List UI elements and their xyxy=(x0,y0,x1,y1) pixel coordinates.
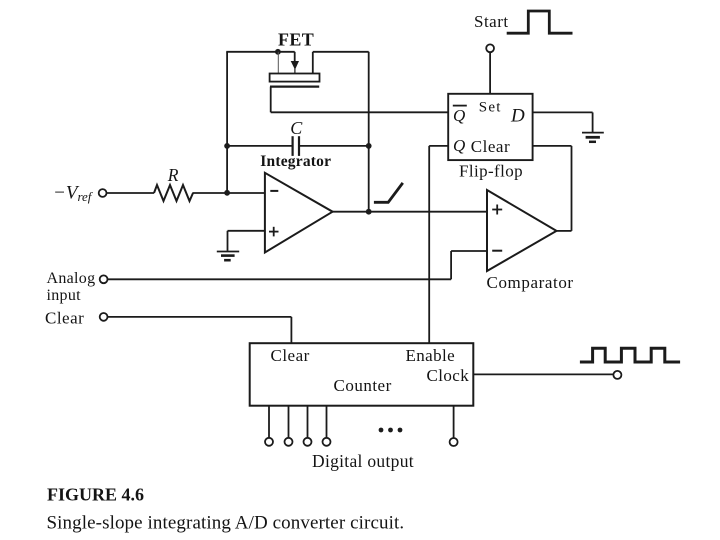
terminal start xyxy=(486,44,494,52)
wire analog riser xyxy=(450,251,452,279)
wire integrator output xyxy=(333,211,487,213)
terminal clear xyxy=(100,313,108,321)
svg-text:Clear: Clear xyxy=(271,346,310,365)
wire gate to flip-flop Qbar xyxy=(271,111,449,113)
svg-text:−Vref: −Vref xyxy=(53,182,94,204)
label Qbar xyxy=(453,106,465,125)
wire D output xyxy=(533,111,593,113)
wire integrator output vertical xyxy=(368,52,370,212)
digital output stub 4 xyxy=(326,406,328,438)
wire Vref to resistor xyxy=(107,192,154,194)
label Analog input xyxy=(47,270,96,304)
wire clear drop xyxy=(290,317,292,343)
svg-text:R: R xyxy=(167,165,179,185)
svg-text:C: C xyxy=(290,118,303,138)
digital output terminal 5 xyxy=(450,438,458,446)
ellipsis dots xyxy=(379,428,403,433)
node capacitor left junction xyxy=(224,143,230,149)
svg-text:Integrator: Integrator xyxy=(260,153,331,170)
wire start to set xyxy=(489,52,491,93)
transistor FET arrow xyxy=(291,52,299,74)
op-amp U2 plus sign xyxy=(492,205,502,215)
transistor FET channel bar xyxy=(270,85,319,87)
svg-text:Clear: Clear xyxy=(45,309,84,328)
wire FET gate down xyxy=(270,87,272,113)
digital output stub 3 xyxy=(307,406,309,438)
svg-text:Clock: Clock xyxy=(427,366,470,385)
op-amp U2 minus sign xyxy=(492,250,502,252)
counter box xyxy=(250,343,474,406)
node A (inverting input junction) xyxy=(224,190,230,196)
resistor R xyxy=(154,185,193,201)
svg-text:Analog: Analog xyxy=(47,270,96,287)
op-amp U1 minus sign xyxy=(270,190,278,192)
svg-text:FET: FET xyxy=(278,30,314,50)
svg-text:Q: Q xyxy=(453,136,465,155)
clock waveform xyxy=(580,348,680,362)
wire capacitor right xyxy=(299,145,368,147)
wire D ground drop xyxy=(592,112,594,132)
wire Q to enable vertical xyxy=(428,146,430,343)
svg-text:Set: Set xyxy=(479,99,502,115)
ground integrator xyxy=(217,252,239,261)
digital output stub 2 xyxy=(288,406,290,438)
flip-flop U3 box xyxy=(448,94,532,160)
wire top feedback left segment xyxy=(226,51,294,53)
wire thin gate stub xyxy=(277,52,279,74)
wire capacitor left xyxy=(227,145,292,147)
wire clear input xyxy=(108,316,292,318)
svg-text:Comparator: Comparator xyxy=(487,273,574,292)
digital output terminal 3 xyxy=(304,438,312,446)
wire Q output left xyxy=(429,145,448,147)
node gate junction dot xyxy=(275,49,281,55)
digital output stub 5 xyxy=(453,406,455,438)
transistor FET plate xyxy=(270,74,320,82)
wire comparator output xyxy=(557,230,572,232)
digital output terminal 4 xyxy=(323,438,331,446)
wire drain drop xyxy=(312,52,314,74)
wire clock xyxy=(473,373,613,375)
digital output terminal 1 xyxy=(265,438,273,446)
capacitor C xyxy=(293,136,299,156)
node output junction xyxy=(366,209,372,215)
wire left vertical feedback xyxy=(226,52,228,193)
svg-text:D: D xyxy=(510,106,525,127)
svg-text:input: input xyxy=(47,287,82,304)
op-amp U1 plus sign xyxy=(269,227,279,237)
wire comparator inverting input xyxy=(451,250,487,252)
wire analog input xyxy=(108,278,451,280)
terminal analog input xyxy=(100,275,108,283)
digital output terminal 2 xyxy=(285,438,293,446)
svg-text:Flip-flop: Flip-flop xyxy=(459,161,523,180)
wire ground drop xyxy=(227,231,229,251)
label Qbar overbar xyxy=(453,105,467,107)
svg-text:Clear: Clear xyxy=(471,137,510,156)
op-amp U2 comparator xyxy=(487,190,557,271)
wire Clear to comparator xyxy=(533,145,572,147)
wire noninverting input xyxy=(228,230,265,232)
ramp waveform symbol xyxy=(374,183,403,202)
svg-text:Digital output: Digital output xyxy=(312,451,414,471)
svg-text:FIGURE 4.6: FIGURE 4.6 xyxy=(47,485,144,505)
svg-text:Single-slope integrating A/D c: Single-slope integrating A/D converter c… xyxy=(47,513,405,534)
terminal clock xyxy=(613,371,621,379)
wire top feedback right segment xyxy=(313,51,369,53)
op-amp U1 integrator xyxy=(265,173,333,253)
svg-text:Enable: Enable xyxy=(406,346,456,365)
svg-text:Counter: Counter xyxy=(334,376,392,395)
terminal -Vref xyxy=(99,189,107,197)
svg-text:Q: Q xyxy=(453,106,465,125)
digital output stub 1 xyxy=(268,406,270,438)
start pulse waveform xyxy=(507,11,573,33)
node capacitor right junction xyxy=(366,143,372,149)
svg-text:Start: Start xyxy=(474,12,509,31)
wire resistor to inverting node xyxy=(193,192,265,194)
ground flip-flop D xyxy=(582,133,604,142)
wire comparator to clear vertical xyxy=(571,146,573,231)
